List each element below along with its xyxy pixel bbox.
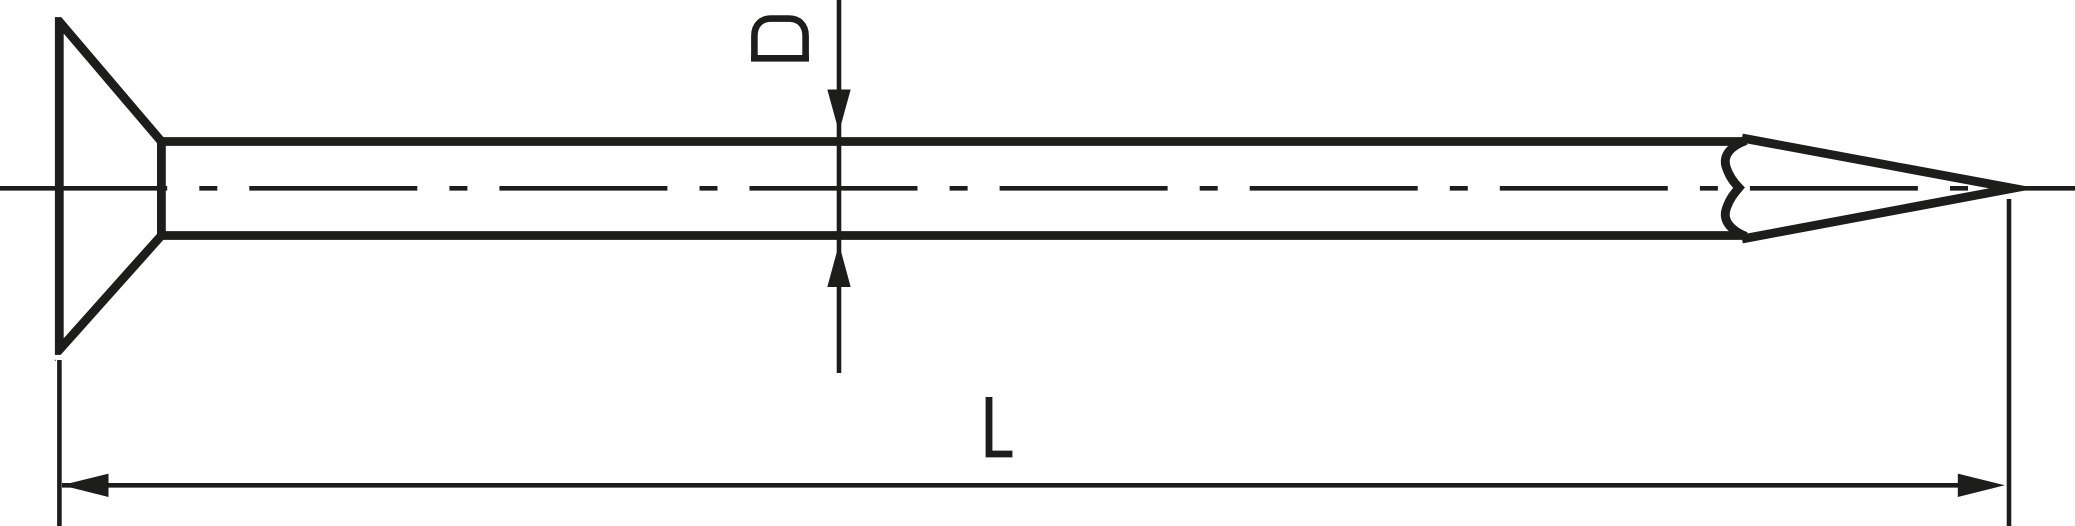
D arrowhead top (points down) <box>827 90 850 133</box>
point break wave (brace curve) <box>1725 141 1746 237</box>
head miter trim bottom (white) <box>48 355 70 360</box>
L arrowhead right (points right) <box>1958 474 2005 497</box>
centerline (dash-dot axis) <box>0 186 2075 191</box>
label L (drawn as path) <box>989 397 1012 454</box>
D arrowhead bottom (points up) <box>827 244 850 287</box>
L dimension line (horizontal) <box>62 483 1959 488</box>
nail head (countersunk trapezoid) <box>59 22 161 350</box>
head miter trim top (white) <box>48 6 70 17</box>
L arrowhead left (points left) <box>62 474 109 497</box>
label D (rotated, drawn as path) <box>751 19 809 59</box>
shank bottom line <box>161 231 1743 240</box>
nail point (tip wedge) <box>1742 138 2013 239</box>
L extension line left <box>57 360 62 526</box>
D dimension line (vertical) <box>837 0 842 373</box>
L extension line right <box>2007 199 2012 526</box>
shank top line <box>161 137 1743 146</box>
